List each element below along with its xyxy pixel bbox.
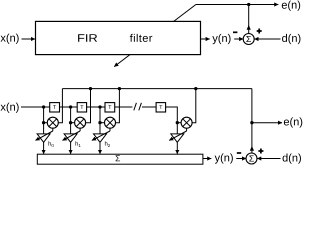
wire feedback drop 1 to multiplier (57, 89, 63, 123)
node tap 4 lower dot (176, 121, 179, 124)
minus sign at top summer (233, 31, 237, 33)
multiplier M3 (circle-X) (105, 117, 116, 128)
wire feedback rail (top diagram) (196, 4, 249, 6)
wire adaptation diagonal arrow through FIR box (under box) (114, 5, 196, 67)
amp coefficient triangle 2 (63, 128, 81, 154)
label h0 (49, 141, 52, 145)
plus sign at bottom summer (258, 149, 263, 154)
adjust arrow through triangle 1 (36, 131, 53, 140)
arrow up out of top summer (247, 25, 251, 30)
node tap 3 lower dot (98, 121, 101, 124)
wire y(n) output from FIR box (201, 38, 210, 40)
wire tap 2 vertical (70, 107, 72, 134)
wire d(n) into top summer (254, 38, 280, 40)
node rail junction dot 2 (89, 87, 92, 90)
node x(n) input label (bottom diagram) (1, 103, 19, 113)
stub tap 4 to multiplier (177, 122, 182, 124)
summer U2 (bottom sigma circle) (246, 153, 257, 164)
node tap 1 lower dot (42, 121, 45, 124)
node tap 3 dot on delay line (98, 105, 101, 108)
wire e(n) output arrow (bottom) (252, 122, 282, 124)
node y(n) label (bottom) (215, 153, 233, 163)
node d(n) label (bottom) (283, 154, 301, 164)
delay element T2 (77, 103, 86, 112)
break marks // on delay line (134, 103, 142, 111)
wire triangle 2 output into sum box (70, 142, 72, 154)
node x(n) input label (top diagram) (1, 34, 19, 44)
node d(n) label (top) (282, 34, 300, 44)
wire tap 4 vertical (176, 123, 178, 134)
wire tap 1 vertical (43, 107, 45, 134)
delay element T1 (50, 103, 60, 112)
wire triangle 4 output into sum box (176, 142, 178, 154)
wire e(n) output arrow (top) (249, 4, 279, 6)
wire d(n) into bottom summer (257, 158, 280, 160)
wire x(n) into FIR box (22, 38, 36, 40)
node e(n) junction dot (bottom) (250, 121, 253, 124)
label h2 (105, 141, 108, 145)
wire triangle 3 output into sum box (99, 142, 101, 154)
wire feedback rail (bottom diagram) (62, 88, 252, 90)
multiplier M4 (circle-X) (181, 117, 192, 128)
delay element T4 (156, 103, 166, 112)
wire feedback drop 2 to multiplier (84, 89, 90, 123)
wire y(n) into top summer (234, 38, 243, 40)
node tap 2 dot on delay line (69, 105, 72, 108)
wire vertical from summer up to rail (top) (248, 5, 250, 34)
plus sign at top summer (257, 29, 262, 34)
amp coefficient triangle 4 (169, 128, 186, 154)
node tap 2 lower dot (69, 121, 72, 124)
FIR filter box (36, 21, 201, 54)
node junction dot on e(n) rail (247, 3, 250, 6)
stub tap 2 to multiplier (71, 122, 77, 124)
adjust arrow through triangle 3 (92, 131, 110, 140)
stub tap 3 to multiplier (100, 122, 106, 124)
multiplier M1 (circle-X) (47, 117, 58, 128)
wire tap 3 vertical (99, 107, 101, 134)
amp coefficient triangle 1 (36, 128, 54, 154)
amp coefficient triangle 3 (92, 128, 110, 154)
arrow up out of bottom summer (250, 146, 254, 151)
wire x(n) delay line with end corner down (21, 106, 132, 108)
wire triangle 1 output into sum box (43, 142, 45, 154)
wire y(n) into bottom summer (236, 158, 246, 160)
node rail junction dot 3 (118, 87, 121, 90)
wire feedback drop 3 to multiplier (114, 89, 119, 123)
node tap 1 dot on delay line (42, 105, 45, 108)
delay element T3 (105, 103, 115, 112)
node rail junction dot 4 (194, 87, 197, 90)
node e(n) label (bottom) (284, 117, 302, 127)
stub tap 1 to multiplier (44, 122, 49, 124)
minus sign at bottom summer (237, 152, 241, 154)
node y(n) label (top) (212, 34, 230, 44)
wire y(n) output of summation box (203, 158, 211, 160)
summer U1 (top sigma circle) (243, 34, 254, 45)
node e(n) label (top) (282, 1, 300, 11)
summation box (37, 154, 203, 164)
adjust arrow through triangle 2 (63, 131, 81, 140)
wire feedback drop 4 to multiplier (191, 89, 196, 123)
wire feedback vertical down to bottom summer (251, 89, 253, 154)
multiplier M2 (circle-X) (75, 117, 86, 128)
adjust arrow through triangle 4 (169, 131, 186, 140)
label h1 (76, 141, 79, 145)
